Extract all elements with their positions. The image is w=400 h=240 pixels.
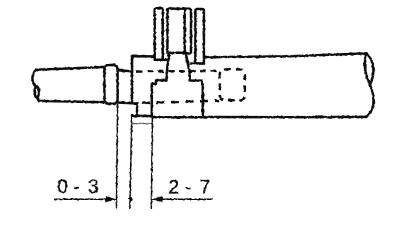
- cable bottom edge right of ferrule: [117, 103, 137, 104]
- dimension line 0-3: [54, 198, 115, 200]
- pin 1 (left): [155, 8, 163, 60]
- cable break loop: [35, 87, 39, 98]
- ferrule on cable: [104, 65, 117, 104]
- hidden line upper (dashed): [136, 70, 217, 73]
- pipe break lens left arc: [365, 53, 370, 85]
- pin 1 seat line: [155, 58, 168, 61]
- arrowhead right (0-3): [106, 196, 117, 202]
- dimension line 2-7: [153, 198, 213, 200]
- extension line 2 (pipe end): [130, 116, 132, 209]
- svg-text:7: 7: [200, 178, 211, 199]
- faint scan line below pipe end: [132, 123, 152, 125]
- connector body silhouette: [152, 53, 203, 118]
- cable bottom edge: [39, 101, 105, 102]
- cable top edge: [36, 67, 104, 70]
- svg-text:-: -: [73, 177, 79, 198]
- blade fold line: [183, 10, 186, 53]
- dimension graphics: [54, 104, 213, 209]
- extension line 3 (connector left edge): [151, 118, 152, 209]
- pipe break lens right arc: [367, 53, 374, 85]
- hidden line lower (dashed): [142, 101, 220, 103]
- hidden terminal head (dashed rounded rect): [220, 69, 245, 100]
- pin 3 (right): [195, 9, 204, 64]
- cable top edge right of ferrule: [117, 69, 132, 72]
- svg-text:3: 3: [88, 177, 99, 198]
- pipe top edge right segment: [203, 53, 366, 57]
- svg-text:-: -: [185, 178, 191, 199]
- pipe end lower edge: [136, 103, 139, 115]
- pin 3 seat line: [191, 62, 204, 65]
- dot on extension line 2: [129, 197, 133, 201]
- pipe end upper edge: [131, 56, 134, 103]
- pipe break lower curve: [366, 85, 373, 117]
- svg-text:0: 0: [57, 177, 68, 198]
- pipe top edge left segment: [132, 55, 155, 58]
- cable break lower tail: [37, 97, 39, 101]
- svg-text:2: 2: [169, 178, 180, 199]
- extension line 1 (ferrule right edge): [116, 104, 117, 208]
- cable break curve left end: [32, 70, 36, 87]
- pipe bottom edge: [132, 116, 366, 118]
- connector blade (wide middle pin): [167, 9, 191, 54]
- arrowhead left (2-7): [152, 196, 163, 202]
